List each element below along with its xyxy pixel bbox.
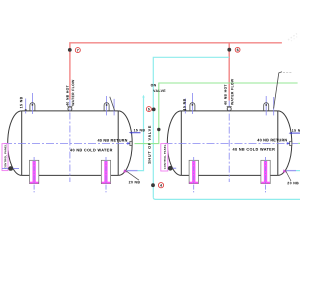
- svg-text:40 NB RETURN: 40 NB RETURN: [97, 139, 127, 143]
- nozzle N3 hot outlet T1: [67, 107, 72, 111]
- gauge lever T2 (long diagonal): [274, 72, 282, 109]
- nozzle N3 hot outlet T2: [227, 107, 232, 111]
- svg-text:40 NB HOT: 40 NB HOT: [66, 84, 70, 105]
- drain arrow T1 (magenta): [123, 169, 127, 172]
- gauge lever T1 (diagonal): [110, 97, 115, 111]
- balloon 5: [146, 107, 151, 112]
- pipe: return header (green): [135, 83, 298, 144]
- junction dot on red riser tank2: [227, 48, 231, 52]
- nozzle N5 gauge stub T1: [113, 99, 115, 116]
- pipe: return stub at right edge (green): [298, 142, 300, 144]
- centerline T2 horizontal: [165, 142, 299, 144]
- svg-text:20 NB: 20 NB: [129, 180, 141, 184]
- svg-text:5: 5: [148, 107, 150, 111]
- return fitting on T1 right cap: [130, 141, 132, 145]
- svg-text:VALVE: VALVE: [153, 89, 166, 93]
- junction dot on cyan line upper: [152, 108, 156, 112]
- svg-text:7: 7: [77, 48, 79, 52]
- inlet line with valve at T1 left bottom: [2, 167, 19, 169]
- pipe: drain stub tank1 (blue): [127, 170, 138, 172]
- centerline leg L2 T2: [265, 157, 267, 194]
- leader to 20 NB label T1: [126, 171, 139, 180]
- junction dot on red riser tank1: [68, 48, 72, 52]
- valve blob T2: [168, 166, 173, 171]
- balloon 4: [158, 183, 163, 188]
- nozzle N1 stub 15NB T1: [25, 99, 27, 114]
- nozzle N4 dome vent 2 T2: [264, 96, 269, 115]
- svg-text:40 NB HOT: 40 NB HOT: [224, 84, 228, 105]
- balloon 7: [75, 48, 80, 53]
- svg-text:SHUT OF VALVE: SHUT OF VALVE: [148, 125, 152, 164]
- svg-text:WATER FLOW: WATER FLOW: [71, 79, 75, 106]
- nozzle N2 dome vent T1: [30, 93, 35, 114]
- centerline arrow into T2 return nozzle: [287, 142, 291, 144]
- drain arrow T2 (magenta): [283, 169, 287, 172]
- pipe: hot water flow header (red): [70, 43, 282, 100]
- svg-text:CONTROL PANEL: CONTROL PANEL: [164, 144, 167, 169]
- nozzle N1 stub 15NB T2: [184, 99, 186, 114]
- svg-text:15 NB: 15 NB: [134, 128, 146, 132]
- pipe: drain run tank2 (cyan): [296, 170, 300, 172]
- svg-text:4: 4: [160, 184, 162, 188]
- junction dot on green riser: [157, 128, 160, 131]
- nozzle N2 dome vent T2: [190, 93, 195, 114]
- pipe: cold feed branch top (cyan): [153, 57, 229, 197]
- centerline arrow into T1 return nozzle: [127, 142, 131, 144]
- svg-text:ON: ON: [151, 83, 157, 87]
- svg-text:20 NB: 20 NB: [287, 181, 299, 185]
- arrowhead top of drain riser: [142, 95, 145, 98]
- leader to 20 NB label T2: [286, 171, 291, 181]
- svg-text:15 NB: 15 NB: [292, 129, 300, 133]
- svg-text:40 NB COLD WATER: 40 NB COLD WATER: [70, 148, 113, 152]
- junction dot on cyan line lower: [151, 183, 155, 187]
- centerline T1 horizontal: [4, 142, 128, 144]
- svg-text:WATER FLOW: WATER FLOW: [230, 78, 234, 105]
- vessel T1 shell: [8, 111, 132, 175]
- pipe: drain stub tank2 (blue): [286, 170, 296, 172]
- faint marks top right: [288, 34, 297, 41]
- centerline leg L2: [105, 157, 107, 194]
- vessel T2 shell: [167, 111, 291, 175]
- pipe: cold feed bottom run (cyan): [153, 197, 300, 199]
- inlet line with valve at T2 left bottom: [168, 167, 176, 169]
- leg L2 of T1: [101, 160, 110, 183]
- pipe: hot water riser tank2 (red): [228, 43, 230, 101]
- balloon 6: [235, 47, 240, 52]
- leg L2 of T2: [261, 160, 270, 183]
- control panel box T1: [2, 144, 8, 171]
- svg-text:15 NB: 15 NB: [183, 98, 187, 110]
- leg L1 of T2: [189, 160, 198, 183]
- nozzle N4 dome vent 2 T1: [104, 96, 109, 115]
- svg-text:15 NB: 15 NB: [19, 96, 23, 108]
- pipe: drain riser tank1 (cyan): [138, 97, 144, 171]
- valve blob T1: [8, 166, 13, 171]
- svg-text:40 NB RETURN: 40 NB RETURN: [257, 138, 287, 142]
- centerline leg L1 T2: [193, 157, 195, 194]
- return fitting on T2 right cap: [290, 141, 292, 145]
- centerline hot nozzle T1 vertical: [69, 100, 71, 183]
- control panel box T2: [161, 144, 168, 171]
- svg-text:6: 6: [237, 48, 239, 52]
- svg-text:CONTROL PANEL: CONTROL PANEL: [4, 144, 7, 169]
- leg L1 of T1: [30, 160, 39, 183]
- faint leader dashes T2: [283, 71, 291, 73]
- centerline leg L1: [33, 157, 35, 194]
- centerline hot nozzle T2 vertical: [228, 101, 230, 182]
- svg-text:40 NB COLD WATER: 40 NB COLD WATER: [232, 148, 275, 152]
- nozzle N5 gauge stub T2: [273, 97, 275, 115]
